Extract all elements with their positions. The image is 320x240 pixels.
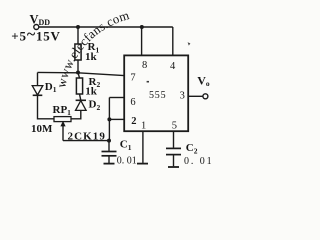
svg-text:RP1: RP1 <box>53 104 72 117</box>
wire top rail <box>39 26 173 28</box>
svg-text:D2: D2 <box>89 99 101 112</box>
svg-text:5: 5 <box>172 120 177 131</box>
resistor R2 <box>76 78 82 94</box>
capacitor C2 <box>166 147 181 149</box>
wire pin1 drop <box>142 131 144 163</box>
wire D1 top lead <box>37 73 39 86</box>
wire pin2 stub <box>109 118 124 120</box>
potentiometer RP1 <box>54 117 71 122</box>
svg-text:10M: 10M <box>31 123 53 135</box>
svg-text:8: 8 <box>142 60 147 71</box>
resistor R1 <box>75 44 81 60</box>
svg-text:C2: C2 <box>186 142 198 155</box>
wire node pin7 <box>38 72 125 75</box>
node R1 top <box>76 25 80 29</box>
svg-text:VDD: VDD <box>30 12 51 27</box>
svg-text:0. 01: 0. 01 <box>184 156 214 167</box>
diode D1 <box>32 86 43 95</box>
wire pin5 drop <box>173 131 175 148</box>
wire pin3 output <box>188 95 203 97</box>
svg-text:4: 4 <box>170 61 176 72</box>
svg-text:2CK19: 2CK19 <box>68 130 107 142</box>
wire D1 bottom lead <box>38 95 55 119</box>
wire pin6 stub <box>109 97 124 99</box>
wire R1 bottom lead <box>77 60 79 73</box>
svg-text:0. 01: 0. 01 <box>117 155 137 166</box>
wire R1 top lead <box>77 27 79 44</box>
ground C1 <box>104 163 115 165</box>
svg-text:2: 2 <box>131 116 136 127</box>
ground C2 <box>168 166 179 168</box>
wire D2 to RP1 <box>71 110 81 118</box>
IC U1 555 timer <box>124 55 188 131</box>
wiper arrow RP1 <box>62 126 64 141</box>
node pin7 <box>76 71 80 75</box>
svg-text:555: 555 <box>149 90 166 101</box>
svg-text:6: 6 <box>130 97 135 108</box>
ground pin1 <box>137 163 148 165</box>
node pin8 rail <box>140 25 144 29</box>
svg-text:7: 7 <box>130 73 135 84</box>
node C1 top <box>107 139 111 143</box>
svg-text:1k: 1k <box>85 51 98 63</box>
svg-text:Vo: Vo <box>197 74 210 89</box>
node pin2 <box>107 117 111 121</box>
wire pin6/pin2 vertical <box>108 98 110 141</box>
svg-text:C1: C1 <box>120 139 132 152</box>
wire pin4 drop <box>172 27 174 55</box>
svg-text:3: 3 <box>180 91 185 102</box>
wire pin8 drop <box>141 27 143 55</box>
svg-text:1k: 1k <box>85 85 98 97</box>
diode D2 <box>76 99 86 101</box>
svg-text:+5~15V: +5~15V <box>11 26 60 44</box>
wire R2 bottom lead <box>80 94 81 100</box>
output terminal <box>203 94 208 99</box>
svg-text:1: 1 <box>141 121 146 132</box>
wire R2 top lead <box>78 73 80 79</box>
wire wiper to node <box>63 140 109 142</box>
capacitor C1 <box>108 141 110 151</box>
svg-text:D1: D1 <box>45 81 57 94</box>
VDD terminal <box>34 25 39 30</box>
